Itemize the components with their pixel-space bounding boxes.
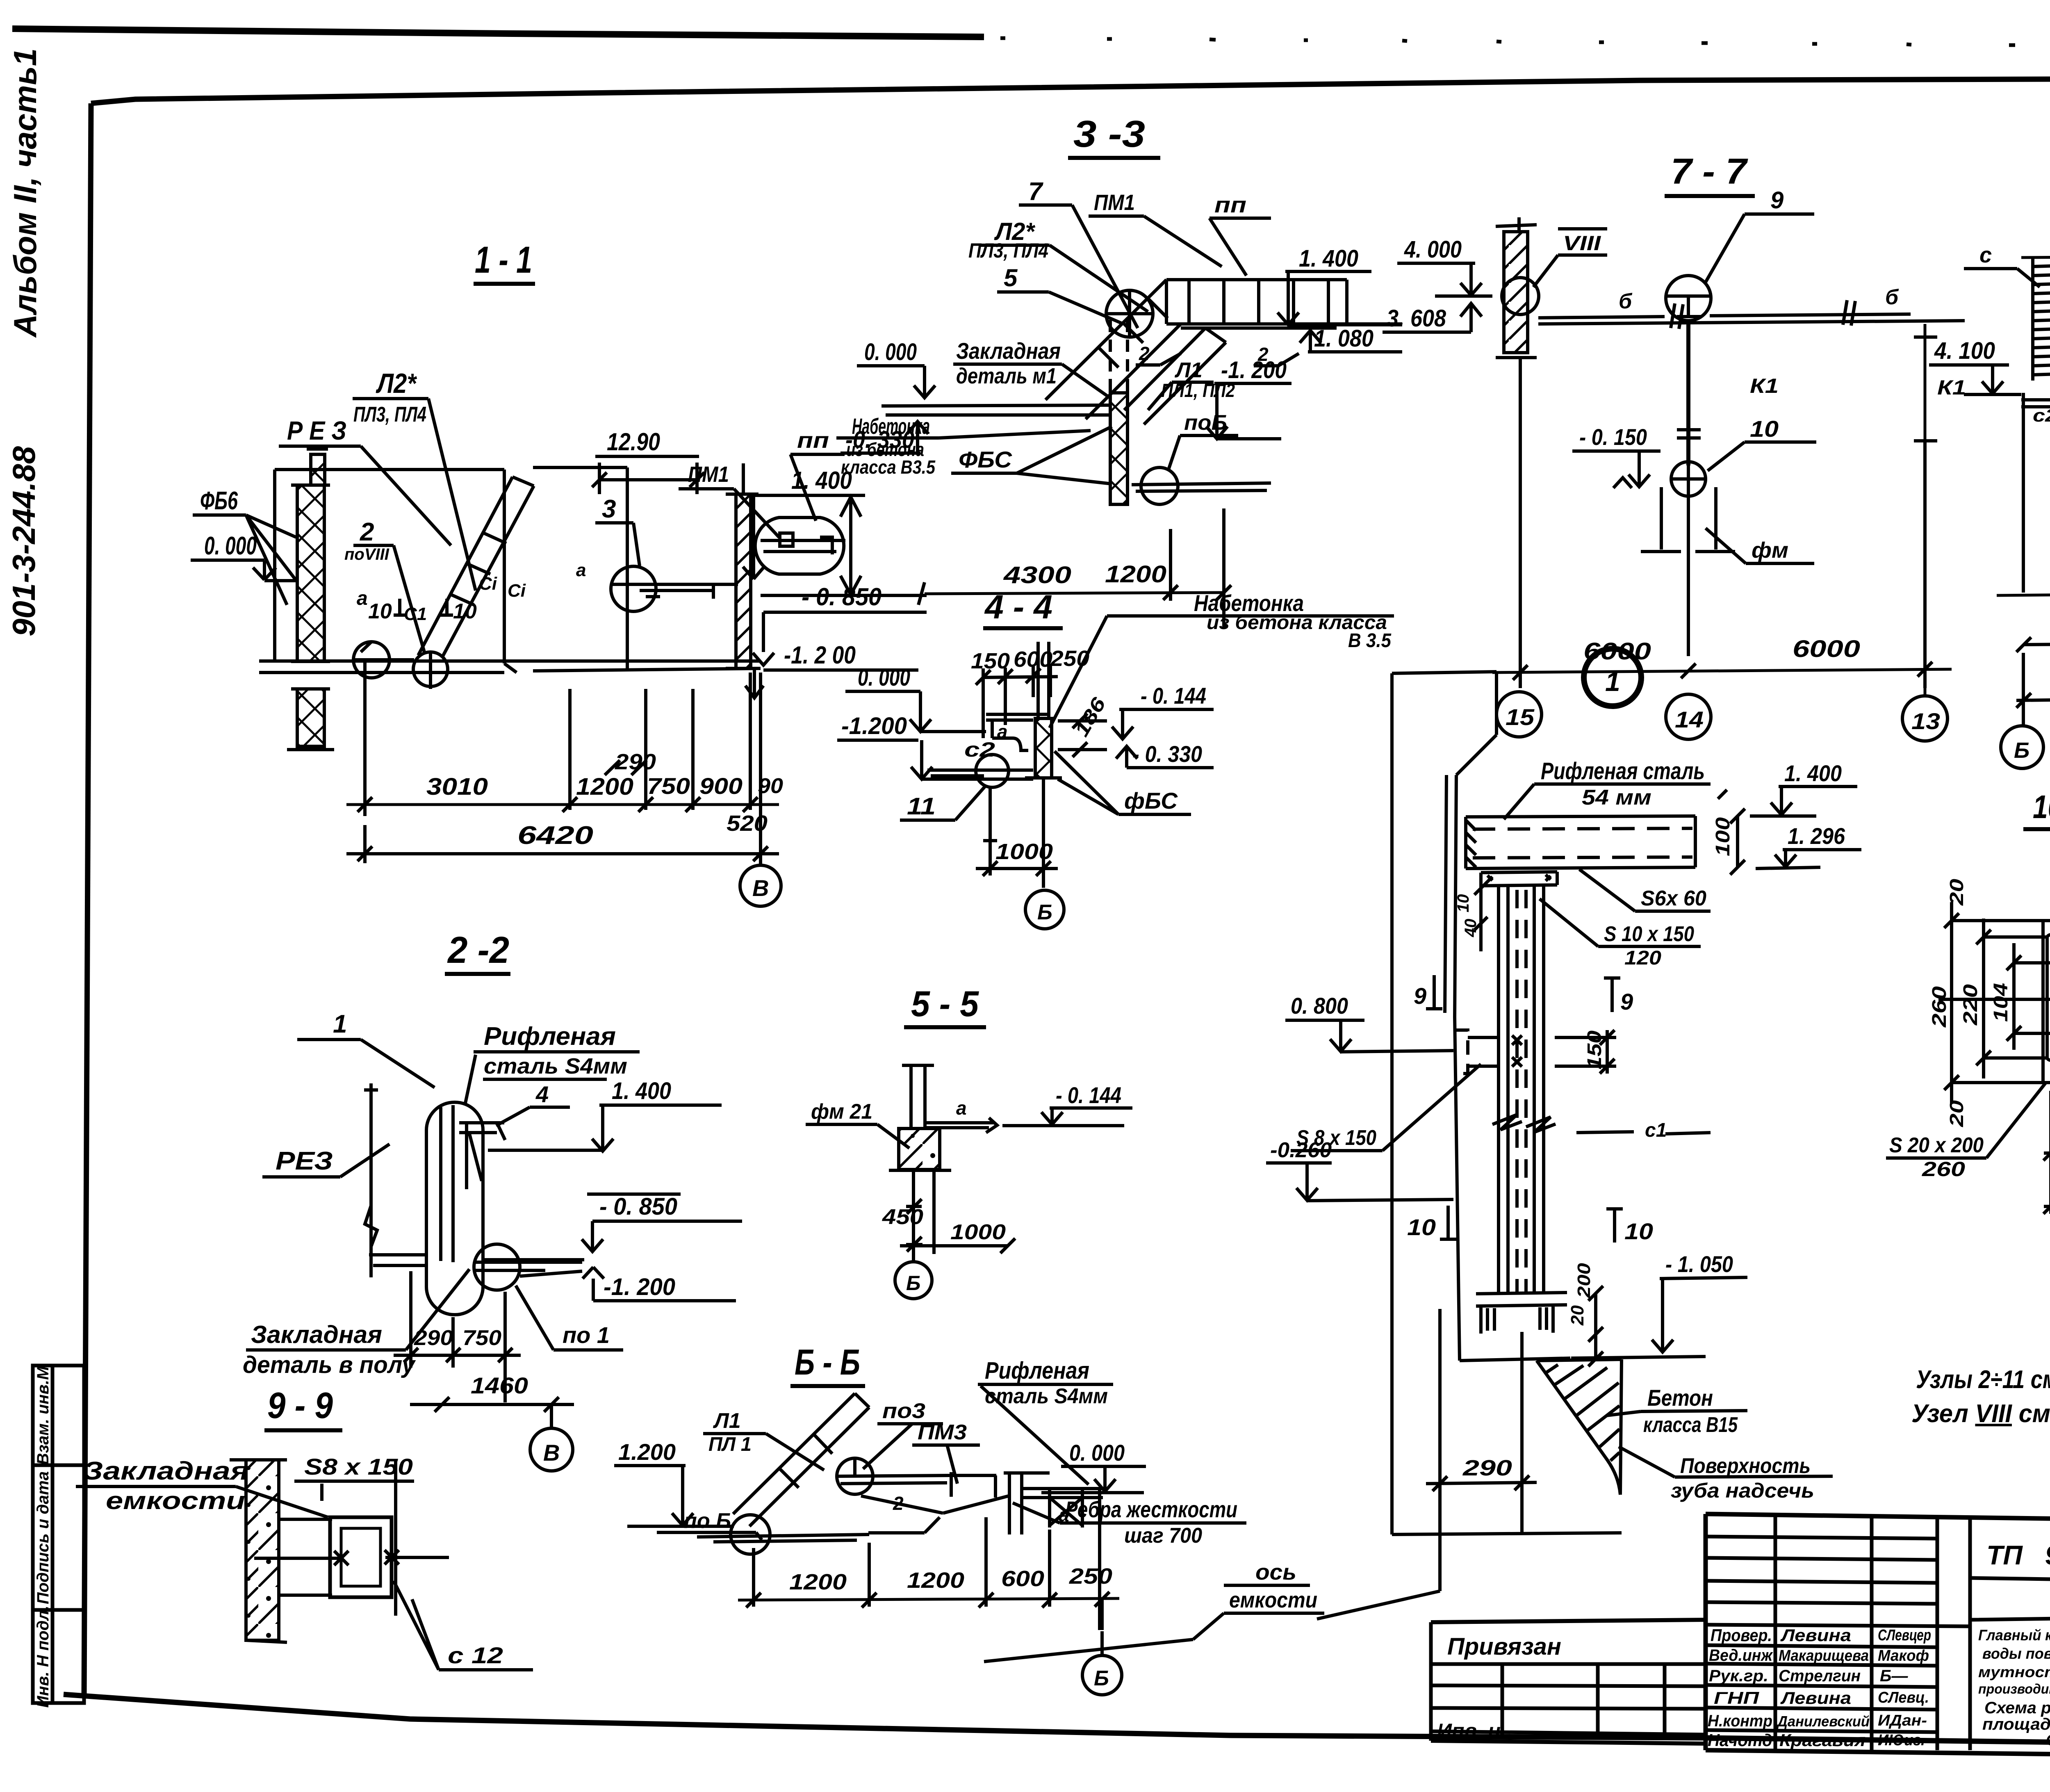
svg-text:12.90: 12.90: [607, 428, 660, 456]
node circle 10 with pedestal: [1671, 462, 1706, 496]
svg-text:зуба надсечь: зуба надсечь: [1671, 1479, 1814, 1502]
svg-text:-1. 200: -1. 200: [604, 1274, 675, 1300]
1.400 level: [1784, 760, 1842, 786]
svg-text:ПЛ3, ПЛ4: ПЛ3, ПЛ4: [968, 239, 1048, 262]
svg-text:по 1: по 1: [563, 1322, 610, 1348]
svg-text:Главный корпус для станции очи: Главный корпус для станции очистки: [1978, 1627, 2050, 1644]
svg-text:сталь S4мм: сталь S4мм: [484, 1054, 627, 1078]
column with crosshatch: [1035, 718, 1052, 778]
level 1.200 left: [618, 1439, 676, 1465]
svg-text:10: 10: [453, 600, 477, 623]
left dim line: [364, 1083, 378, 1277]
vertical post right: [1004, 1473, 1050, 1534]
svg-text:- 0. 144: - 0. 144: [1141, 683, 1206, 709]
vertical dim arrows between levels: [840, 495, 861, 595]
svg-text:-1. 200: -1. 200: [1221, 357, 1287, 383]
svg-text:Данилевский: Данилевский: [1776, 1713, 1870, 1730]
label Zakladnaya detal M1: [956, 338, 1061, 388]
label FB6: [200, 487, 238, 515]
svg-text:1 - 1: 1 - 1: [475, 239, 532, 281]
svg-text:В: В: [543, 1440, 560, 1466]
label zakladnaya detal v polu: [243, 1321, 416, 1378]
nabetonka text: [841, 414, 936, 478]
svg-text:а: а: [576, 560, 586, 580]
ladder with rungs: [2033, 256, 2050, 381]
svg-text:1. 400: 1. 400: [1784, 760, 1842, 786]
level -0.850: [802, 583, 881, 611]
C2 circle: [964, 738, 995, 761]
svg-text:площадок на отм. 0.000 и1.400: площадок на отм. 0.000 и1.400: [1982, 1715, 2050, 1733]
concrete block: [899, 1129, 940, 1170]
svg-text:1.200: 1.200: [618, 1439, 676, 1465]
svg-text:600: 600: [1001, 1566, 1044, 1591]
label S8x150: [304, 1454, 413, 1480]
FBS: [1124, 788, 1178, 814]
svg-text:Рифленая: Рифленая: [985, 1357, 1089, 1384]
svg-text:750: 750: [647, 773, 690, 799]
bottom line of title block: [1706, 1750, 2050, 1759]
svg-text:ГНП: ГНП: [1714, 1688, 1759, 1708]
square tube: [279, 1519, 332, 1595]
svg-text:200: 200: [1574, 1263, 1594, 1298]
leader from L2* to pit: [428, 399, 476, 590]
-1.050 level: [1665, 1251, 1733, 1277]
beam break marks: [1671, 300, 1855, 329]
svg-text:1: 1: [1605, 666, 1620, 697]
level -1.200: [841, 713, 907, 739]
stair diagonal: [733, 1393, 869, 1526]
svg-text:2 -2: 2 -2: [447, 929, 509, 971]
node circle on wall: [1502, 278, 1539, 315]
svg-text:Б—: Б—: [1880, 1667, 1908, 1685]
level 1.400 right: [791, 467, 852, 494]
svg-text:5 - 5: 5 - 5: [911, 983, 979, 1024]
svg-text:250: 250: [1069, 1564, 1112, 1589]
svg-text:Стрелгин: Стрелгин: [1779, 1667, 1861, 1685]
label PP: [1214, 193, 1246, 217]
svg-text:Узел VIII см. лист КМ 11: Узел VIII см. лист КМ 11: [1911, 1400, 2050, 1428]
floor lines 0.000: [881, 405, 1111, 415]
1.296 level: [1788, 823, 1845, 849]
section title 10-10: [2033, 789, 2050, 825]
svg-text:Левина: Левина: [1780, 1626, 1851, 1645]
svg-text:Крагавия: Крагавия: [1779, 1730, 1865, 1750]
level 0.000: [858, 664, 910, 691]
axis circle B: [895, 1262, 932, 1299]
svg-text:Рук.гр.: Рук.гр.: [1709, 1667, 1768, 1685]
foundation bottom: [1392, 1533, 1622, 1534]
svg-text:с1: с1: [1645, 1119, 1667, 1141]
svg-text:б: б: [1885, 285, 1899, 309]
stair L1 diagonal: [1124, 328, 1226, 424]
svg-text:20: 20: [1946, 878, 1967, 906]
node circle top: [1106, 290, 1153, 337]
svg-text:1. 400: 1. 400: [612, 1078, 671, 1104]
svg-text:1460: 1460: [471, 1372, 528, 1398]
svg-text:с 12: с 12: [448, 1642, 503, 1668]
level -0.330: [845, 426, 914, 453]
os emkosti label: [1229, 1560, 1317, 1612]
0.800 level: [1291, 993, 1348, 1019]
svg-text:Взам. инв.М: Взам. инв.М: [34, 1366, 52, 1465]
label 4 + 1.400: [535, 1078, 671, 1107]
section title 3-3: [1073, 113, 1145, 155]
svg-text:- 0. 850: - 0. 850: [599, 1193, 677, 1220]
svg-text:Н.контр: Н.контр: [1708, 1712, 1772, 1730]
svg-text:20: 20: [1946, 1100, 1967, 1127]
svg-text:4. 000: 4. 000: [1404, 236, 1462, 263]
section title 1-1: [475, 239, 532, 281]
svg-text:260: 260: [1922, 1158, 1965, 1181]
vertical dims: [906, 1172, 934, 1261]
label L2* PL3 PL4: [968, 218, 1048, 262]
svg-text:1200: 1200: [576, 773, 633, 800]
svg-text:Б: Б: [1037, 901, 1052, 924]
horizontal rows upper empty: [1706, 1537, 1970, 1626]
lower left circle and line: [731, 1515, 770, 1554]
svg-text:VIII: VIII: [1563, 232, 1601, 255]
floor line: [1997, 591, 2050, 595]
svg-text:шаг 700: шаг 700: [1124, 1524, 1202, 1548]
svg-text:Начотд: Начотд: [1708, 1730, 1772, 1750]
svg-text:15: 15: [1506, 704, 1535, 730]
platform plate: [2021, 393, 2050, 593]
10 section marks: [1407, 1214, 1653, 1244]
svg-text:10: 10: [1454, 894, 1472, 913]
po3 label: [882, 1399, 925, 1423]
level -1.200: [1221, 357, 1287, 383]
svg-text:-1. 2 00: -1. 2 00: [784, 641, 856, 669]
dims 1800 6000: [2016, 636, 2050, 652]
svg-text:пп: пп: [797, 428, 829, 453]
svg-text:10: 10: [1750, 416, 1779, 442]
level -0.150: [1579, 424, 1647, 450]
PM3 label: [918, 1420, 967, 1444]
label 10: [1750, 416, 1779, 442]
svg-text:10: 10: [1407, 1214, 1436, 1240]
riflenaya stal label: [1541, 758, 1705, 809]
uzel circle 1: [1584, 649, 1641, 706]
label PP: [797, 428, 829, 453]
frame bottom line: [64, 1694, 2050, 1748]
level 1.080: [1314, 325, 1373, 352]
svg-text:7: 7: [1028, 178, 1043, 206]
label 9: [1770, 187, 1783, 214]
label riflenaya stal: [484, 1022, 627, 1078]
svg-text:Инв. Н подл.: Инв. Н подл.: [34, 1606, 52, 1708]
bracket on wall: [1455, 1030, 1468, 1074]
svg-text:1000: 1000: [950, 1220, 1006, 1244]
foundation tooth hatched: [1537, 1359, 1622, 1495]
wall outline: [1392, 672, 1496, 1534]
svg-text:с2: с2: [964, 738, 995, 761]
200/20 rotated dims: [1567, 1263, 1594, 1326]
small texts inside pit: [344, 545, 586, 624]
svg-text:- 0. 144: - 0. 144: [1056, 1082, 1121, 1108]
label 5: [1004, 264, 1018, 292]
node circle: [474, 1244, 520, 1290]
svg-text:750: 750: [462, 1326, 501, 1350]
texts: [1708, 1540, 2050, 1750]
S8x150 label: [1296, 1126, 1376, 1150]
-0.260 level: [1270, 1138, 1332, 1162]
FM label: [1752, 538, 1788, 563]
svg-text:1: 1: [333, 1010, 347, 1038]
riflenaya stal label: [985, 1357, 1108, 1408]
label poB: [1184, 411, 1227, 435]
frame left line: [84, 103, 91, 1698]
svg-text:Сі: Сі: [508, 581, 526, 601]
lower landing circle: [1141, 467, 1178, 504]
rebra zhestkosti: [1065, 1496, 1237, 1548]
vertical dim 1000 to axis: [983, 779, 1043, 888]
svg-text:по3: по3: [882, 1399, 925, 1423]
svg-text:ФБ6: ФБ6: [200, 487, 238, 515]
fm21 label: [811, 1100, 872, 1124]
svg-text:Макоф: Макоф: [1878, 1647, 1929, 1664]
svg-text:Подпись и дата: Подпись и дата: [34, 1471, 52, 1604]
center line: [1938, 998, 2050, 1001]
wall hatched: [1504, 232, 1528, 353]
vertical line right: [1098, 1489, 1101, 1630]
svg-text:Вед.инж: Вед.инж: [1709, 1646, 1773, 1664]
label REZ: [287, 416, 346, 445]
svg-text:Привязан: Привязан: [1447, 1633, 1561, 1660]
svg-text:2: 2: [893, 1493, 904, 1514]
svg-text:1. 400: 1. 400: [1299, 245, 1358, 272]
svg-text:б: б: [1619, 290, 1633, 313]
100 rotated dim: [1712, 817, 1734, 856]
10/40 small dims: [1454, 894, 1480, 938]
svg-text:Закладная: Закладная: [956, 338, 1061, 364]
svg-text:Ипв. и: Ипв. и: [1437, 1719, 1501, 1742]
svg-text:Схема расположения лестниц,: Схема расположения лестниц,: [1984, 1699, 2050, 1717]
main obround shape: [426, 1102, 483, 1315]
svg-text:воды поверхностных источников: воды поверхностных источников: [1982, 1645, 2050, 1662]
axis circles B V: [2023, 653, 2050, 725]
svg-text:мутностью до 1500 мг/л: мутностью до 1500 мг/л: [1978, 1664, 2050, 1680]
svg-text:- 0. 330: - 0. 330: [1132, 741, 1202, 767]
S10x150/120 label: [1604, 922, 1694, 969]
svg-text:9: 9: [1620, 989, 1633, 1015]
VIII label: [1563, 232, 1601, 255]
svg-text:250: 250: [1050, 646, 1089, 671]
label 11: [907, 793, 936, 820]
level -1.200: [604, 1274, 675, 1300]
column cap: [1481, 872, 1557, 886]
svg-text:- 0. 150: - 0. 150: [1579, 424, 1647, 450]
svg-text:Узлы 2÷11 см. лист км 14: Узлы 2÷11 см. лист км 14: [1916, 1366, 2050, 1394]
svg-text:Бетон: Бетон: [1647, 1385, 1713, 1411]
svg-text:емкости: емкости: [106, 1487, 245, 1514]
150 dim: [1584, 1031, 1606, 1069]
level -0.330: [1132, 741, 1202, 767]
dim line 6000 6000: [1492, 669, 1952, 673]
svg-text:S 20 х 200: S 20 х 200: [1889, 1133, 1984, 1157]
stair L2 diagonal: [1045, 280, 1181, 419]
svg-text:Л2*: Л2*: [376, 368, 417, 399]
crosshatched wall column: [311, 454, 325, 485]
level -0.144: [1056, 1082, 1121, 1108]
svg-text:9: 9: [1414, 983, 1426, 1009]
svg-text:3: 3: [602, 495, 616, 523]
svg-text:класса В3.5: класса В3.5: [841, 456, 936, 478]
svg-text:6420: 6420: [517, 821, 593, 850]
top line long: [2021, 255, 2050, 258]
svg-text:6000: 6000: [1793, 636, 1860, 662]
svg-text:10: 10: [1624, 1218, 1653, 1244]
svg-text:Р Е З: Р Е З: [287, 416, 346, 445]
svg-text:104: 104: [1990, 983, 2012, 1022]
nabetonka note: [1194, 590, 1392, 652]
svg-text:90: 90: [758, 774, 783, 798]
horizontal member: [861, 1472, 1009, 1513]
svg-text:0. 800: 0. 800: [1291, 993, 1348, 1019]
svg-text:Рифленая сталь: Рифленая сталь: [1541, 758, 1705, 784]
svg-text:деталь м1: деталь м1: [956, 364, 1057, 388]
svg-text:1200: 1200: [907, 1568, 964, 1593]
section title 9-9: [267, 1385, 333, 1426]
K1 struts: [1750, 374, 1966, 399]
svg-text:1200: 1200: [789, 1570, 847, 1594]
svg-text:7 - 7: 7 - 7: [1671, 151, 1748, 192]
top paper edge line: [12, 29, 984, 37]
svg-text:производительностью 12,5 тыс.м: производительностью 12,5 тыс.м³/сут: [1978, 1681, 2050, 1696]
plate and bracket: [986, 714, 1050, 750]
label 1: [333, 1010, 347, 1038]
row under TP: [1970, 1578, 2050, 1586]
svg-text:13: 13: [1911, 708, 1940, 734]
svg-text:520: 520: [727, 811, 768, 836]
node circle 2: [413, 652, 448, 686]
svg-text:4. 100: 4. 100: [1934, 337, 1995, 364]
right hatched wall: [736, 494, 751, 668]
top node circle: [837, 1458, 873, 1494]
svg-text:Л1: Л1: [1174, 358, 1203, 382]
svg-text:-0.260: -0.260: [1270, 1138, 1332, 1162]
section title 7-7: [1671, 151, 1748, 192]
290 dim: [1462, 1456, 1512, 1480]
svg-text:ПМ1: ПМ1: [688, 462, 729, 487]
label 2: [893, 1493, 904, 1514]
svg-text:ТП 901-3-244.88: ТП 901-3-244.88: [1986, 1540, 2050, 1570]
beton klassa B15: [1643, 1385, 1738, 1437]
svg-text:а: а: [997, 721, 1008, 742]
label PM1: [1094, 190, 1135, 215]
left dims: [1952, 921, 2050, 1083]
svg-text:Сі: Сі: [479, 574, 497, 594]
svg-text:ИЮиз.: ИЮиз.: [1878, 1732, 1925, 1749]
floor slab lines: [259, 661, 761, 673]
svg-text:260: 260: [1929, 986, 1950, 1028]
svg-text:Б: Б: [1094, 1667, 1109, 1690]
svg-text:2: 2: [360, 518, 374, 546]
right wall top tick: [742, 463, 745, 494]
section title 5-5: [911, 983, 979, 1024]
label L1 PL1 PL2: [1161, 358, 1235, 401]
svg-text:5: 5: [1004, 264, 1018, 292]
svg-text:20: 20: [1567, 1305, 1588, 1326]
svg-text:Закладная: Закладная: [251, 1321, 382, 1348]
svg-text:120: 120: [1624, 947, 1661, 969]
svg-text:S 10 х 150: S 10 х 150: [1604, 922, 1694, 946]
section title B-B: [795, 1342, 860, 1382]
svg-text:К1: К1: [1937, 376, 1966, 399]
svg-text:ПЛ 1: ПЛ 1: [708, 1434, 752, 1455]
dims: [754, 1517, 1102, 1630]
label C12: [448, 1642, 503, 1668]
svg-text:Б: Б: [2014, 738, 2029, 763]
svg-text:S6х 60: S6х 60: [1641, 887, 1706, 910]
top dims 150 600 250: [971, 646, 1089, 673]
svg-text:РЕЗ: РЕЗ: [276, 1147, 333, 1175]
base plate and anchor: [1460, 1293, 1570, 1361]
svg-text:220: 220: [1960, 984, 1982, 1026]
bottom dimension chain: [365, 661, 761, 859]
svg-text:по Б: по Б: [684, 1509, 731, 1533]
svg-text:СЛевцер: СЛевцер: [1878, 1627, 1931, 1644]
axis circle B: [1025, 890, 1064, 929]
svg-text:деталь в полу: деталь в полу: [243, 1352, 416, 1378]
svg-text:450: 450: [882, 1205, 923, 1229]
svg-text:Закладная: Закладная: [83, 1457, 249, 1485]
label 2 small left: [1139, 343, 1269, 365]
L1 PL1 label: [708, 1409, 752, 1455]
svg-text:Набетонка: Набетонка: [852, 414, 930, 439]
svg-text:901-3-244.88: 901-3-244.88: [6, 446, 42, 636]
svg-text:Макарищева: Макарищева: [1779, 1647, 1869, 1664]
name rows: [1706, 1645, 1937, 1732]
axis circle V: [550, 1404, 553, 1428]
svg-text:К1: К1: [1750, 374, 1779, 397]
level 0.000: [204, 532, 257, 560]
svg-text:3 -3: 3 -3: [1073, 113, 1145, 155]
post break marks: [1492, 1115, 1556, 1132]
channel profile: [2042, 921, 2050, 1083]
label C: [1979, 243, 1992, 267]
section title 4-4: [984, 588, 1052, 626]
svg-text:Б: Б: [906, 1272, 920, 1295]
svg-text:ось: ось: [1255, 1560, 1296, 1585]
poverhnost zuba: [1671, 1454, 1814, 1502]
axis circle B bottom: [1082, 1655, 1122, 1695]
wall column crosshatch: [1110, 393, 1127, 504]
svg-text:0. 000: 0. 000: [1069, 1440, 1125, 1466]
left plate obround: [2047, 935, 2050, 1060]
a arrow: [956, 1097, 967, 1119]
label PM1: [688, 462, 729, 487]
svg-text:а: а: [357, 588, 368, 609]
level -0.850: [599, 1193, 677, 1220]
svg-text:10 - 10: 10 - 10: [2033, 789, 2050, 825]
svg-text:а: а: [956, 1097, 967, 1119]
leader to os emkosti: [1317, 1591, 1440, 1619]
svg-text:1. 296: 1. 296: [1788, 823, 1845, 849]
dim 12.90: [607, 428, 660, 456]
svg-text:14: 14: [1675, 707, 1704, 732]
platform slab: [1466, 816, 1695, 817]
node circle 3: [611, 566, 656, 611]
S20x200 label: [1889, 1133, 1984, 1181]
svg-text:фм: фм: [1752, 538, 1788, 563]
oval detail right: [755, 518, 844, 574]
level 3.608: [1387, 305, 1446, 332]
svg-text:Л1: Л1: [713, 1409, 741, 1433]
level -0.144: [1141, 683, 1206, 709]
label REZ: [276, 1147, 333, 1175]
svg-text:ПМ3: ПМ3: [918, 1420, 967, 1444]
svg-text:4: 4: [535, 1081, 549, 1107]
